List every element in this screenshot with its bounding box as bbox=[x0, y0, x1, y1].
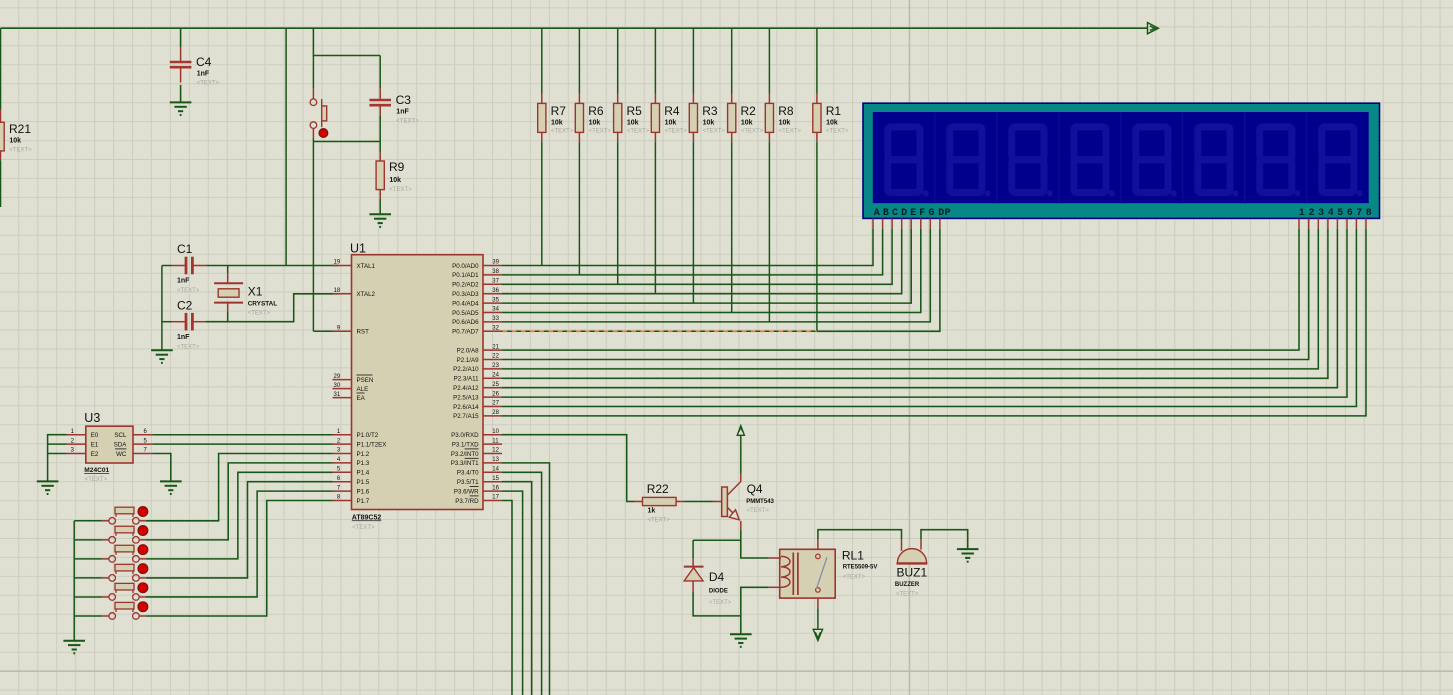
wire P2.1 net to display digit 2 bbox=[502, 228, 1309, 359]
svg-text:R8: R8 bbox=[778, 104, 794, 118]
wire XTAL1 net bbox=[206, 265, 339, 267]
svg-text:<TEXT>: <TEXT> bbox=[551, 129, 574, 135]
svg-text:P1.4: P1.4 bbox=[357, 470, 370, 477]
svg-text:2: 2 bbox=[1309, 208, 1315, 219]
svg-text:P0.5/AD5: P0.5/AD5 bbox=[452, 310, 479, 317]
U1 pin 8 P1.7 bbox=[333, 500, 352, 502]
wire P0.0 net to display segment bbox=[502, 228, 873, 265]
svg-text:P3.5/T1: P3.5/T1 bbox=[457, 479, 479, 486]
push button switch (reset) bbox=[312, 56, 314, 89]
svg-text:PMMT543: PMMT543 bbox=[746, 499, 774, 505]
svg-text:PSEN: PSEN bbox=[357, 377, 374, 384]
wire relay common to buzzer bbox=[817, 539, 819, 549]
resistor R2 bbox=[731, 94, 733, 104]
U1 pin 7 P1.6 bbox=[333, 490, 352, 492]
wire R8 to P0 row bbox=[768, 142, 770, 322]
wire P0.4 net to display segment bbox=[502, 228, 911, 303]
wire button K3 to P1.4 bbox=[146, 472, 333, 559]
wire P3.4 net down bbox=[502, 472, 542, 695]
wire VCC top rail bbox=[1, 27, 1148, 29]
wire buzzer to ground bbox=[921, 530, 968, 549]
svg-text:36: 36 bbox=[492, 288, 499, 294]
U1 pin 36 P0.3/AD3 bbox=[483, 293, 502, 295]
svg-text:34: 34 bbox=[492, 307, 499, 313]
wire Q4 collector to VCC arrow bbox=[740, 436, 742, 474]
svg-text:P3.6/WR: P3.6/WR bbox=[454, 488, 479, 495]
svg-text:<TEXT>: <TEXT> bbox=[741, 129, 764, 135]
svg-text:13: 13 bbox=[492, 457, 499, 463]
U1 pin 25 P2.4/A12 bbox=[483, 387, 502, 389]
svg-text:<TEXT>: <TEXT> bbox=[665, 129, 688, 135]
svg-text:<TEXT>: <TEXT> bbox=[779, 129, 802, 135]
U1 pin 29 PSEN bbox=[333, 379, 352, 381]
U1 pin 26 P2.5/A13 bbox=[483, 396, 502, 398]
push button K3 bbox=[102, 558, 109, 560]
svg-text:10k: 10k bbox=[826, 120, 838, 127]
svg-text:R9: R9 bbox=[389, 160, 405, 174]
U3 pin 3 E2 bbox=[67, 453, 86, 455]
svg-text:27: 27 bbox=[492, 401, 499, 407]
svg-text:P2.2/A10: P2.2/A10 bbox=[453, 366, 479, 373]
U1 pin 13 P3.3/INT1 bbox=[483, 462, 502, 464]
wire P2.6 net to display digit 7 bbox=[502, 228, 1356, 406]
svg-text:<TEXT>: <TEXT> bbox=[9, 147, 32, 153]
svg-text:A: A bbox=[874, 208, 880, 219]
svg-text:10k: 10k bbox=[389, 177, 401, 184]
svg-text:R1: R1 bbox=[826, 104, 842, 118]
wire button K3 left bbox=[74, 558, 102, 560]
svg-text:22: 22 bbox=[492, 354, 499, 360]
wire rail to R2 bbox=[731, 28, 733, 94]
wire P2.0 net to display digit 1 bbox=[502, 228, 1299, 350]
svg-text:C1: C1 bbox=[177, 242, 193, 256]
wire SCL to P1.0 bbox=[152, 434, 332, 436]
resistor R5 bbox=[617, 94, 619, 104]
svg-text:C2: C2 bbox=[177, 299, 193, 313]
svg-text:<TEXT>: <TEXT> bbox=[709, 600, 732, 606]
svg-text:39: 39 bbox=[492, 260, 499, 266]
svg-text:17: 17 bbox=[492, 495, 499, 501]
resistor R6 bbox=[578, 94, 580, 104]
svg-text:P1.5: P1.5 bbox=[357, 479, 370, 486]
svg-text:10: 10 bbox=[492, 429, 499, 435]
wire P2.7 net to display digit 8 bbox=[502, 228, 1366, 416]
ground below U3 WC bbox=[160, 480, 182, 482]
capacitor C4 bbox=[180, 47, 182, 62]
svg-text:P3.7/RD: P3.7/RD bbox=[455, 498, 479, 505]
wire button K1 left bbox=[74, 520, 102, 522]
svg-text:<TEXT>: <TEXT> bbox=[703, 129, 726, 135]
svg-text:15: 15 bbox=[492, 476, 499, 482]
svg-text:R21: R21 bbox=[9, 122, 31, 136]
power arrow VCC at Q4 bbox=[737, 426, 744, 436]
wire R22 to Q4 base bbox=[684, 501, 713, 503]
wire C4 to ground bbox=[180, 85, 182, 102]
wire P0.2 net to display segment bbox=[502, 228, 892, 284]
U1 pin 2 P1.1/T2EX bbox=[333, 443, 352, 445]
svg-text:M24C01: M24C01 bbox=[84, 467, 109, 474]
svg-text:R2: R2 bbox=[741, 104, 757, 118]
svg-text:P3.3/INT1: P3.3/INT1 bbox=[451, 460, 479, 467]
svg-text:<TEXT>: <TEXT> bbox=[843, 574, 866, 580]
U1 pin 22 P2.1/A9 bbox=[483, 359, 502, 361]
svg-text:<TEXT>: <TEXT> bbox=[177, 345, 200, 351]
U1 pin 1 P1.0/T2 bbox=[333, 434, 352, 436]
U1 pin 3 P1.2 bbox=[333, 453, 352, 455]
wire R7 to P0 row bbox=[541, 142, 543, 265]
U1 pin 15 P3.5/T1 bbox=[483, 481, 502, 483]
push button K2 bbox=[102, 539, 109, 541]
U1 pin 37 P0.2/AD2 bbox=[483, 283, 502, 285]
display DPY1 8-digit 7-segment bbox=[863, 103, 1380, 218]
svg-text:23: 23 bbox=[492, 363, 499, 369]
svg-text:7: 7 bbox=[1356, 208, 1362, 219]
wire button K5 to P1.6 bbox=[146, 491, 333, 597]
svg-text:<TEXT>: <TEXT> bbox=[896, 591, 919, 597]
wire WC to ground bbox=[152, 454, 170, 482]
push button K5 bbox=[102, 596, 109, 598]
svg-text:1nF: 1nF bbox=[177, 334, 190, 341]
transistor Q4 bbox=[713, 501, 722, 503]
eeprom U3 M24C01 bbox=[86, 426, 133, 463]
U1 pin 33 P0.6/AD6 bbox=[483, 321, 502, 323]
svg-text:<TEXT>: <TEXT> bbox=[747, 508, 770, 514]
wire rail to R5 bbox=[617, 28, 619, 94]
wire button K5 left bbox=[74, 596, 102, 598]
U1 pin 32 P0.7/AD7 bbox=[483, 330, 502, 332]
svg-text:<TEXT>: <TEXT> bbox=[248, 311, 271, 317]
U1 pin 39 P0.0/AD0 bbox=[483, 265, 502, 267]
svg-text:12: 12 bbox=[492, 448, 499, 454]
svg-text:XTAL1: XTAL1 bbox=[357, 263, 376, 270]
svg-text:<TEXT>: <TEXT> bbox=[396, 119, 419, 125]
svg-text:10k: 10k bbox=[779, 120, 791, 127]
wire P2.2 net to display digit 3 bbox=[502, 228, 1318, 369]
svg-text:D: D bbox=[938, 208, 944, 219]
wire P2.3 net to display digit 4 bbox=[502, 228, 1328, 378]
U1 pin 31 EA bbox=[333, 397, 352, 399]
svg-text:Q4: Q4 bbox=[747, 482, 763, 496]
U1 pin 34 P0.5/AD5 bbox=[483, 312, 502, 314]
wire switch to RST node bbox=[312, 139, 314, 332]
U1 pin 24 P2.3/A11 bbox=[483, 377, 502, 379]
svg-text:<TEXT>: <TEXT> bbox=[85, 477, 108, 483]
svg-text:32: 32 bbox=[492, 326, 499, 332]
svg-text:31: 31 bbox=[334, 392, 341, 398]
wire left rail branch bbox=[0, 28, 2, 109]
U1 pin 12 P3.2/INT0 bbox=[483, 453, 502, 455]
wire button K1 to P1.2 bbox=[146, 454, 333, 521]
svg-text:RL1: RL1 bbox=[842, 548, 864, 562]
wire P3.5 net down bbox=[502, 482, 532, 695]
svg-text:14: 14 bbox=[492, 467, 499, 473]
svg-text:P0.6/AD6: P0.6/AD6 bbox=[452, 319, 479, 326]
wire button K6 to P1.7 bbox=[146, 501, 333, 617]
resistor R1 bbox=[816, 94, 818, 104]
svg-text:B: B bbox=[883, 208, 889, 219]
U1 pin 17 P3.7/RD bbox=[483, 500, 502, 502]
svg-text:37: 37 bbox=[492, 279, 499, 285]
U1 pin 11 P3.1/TXD bbox=[483, 443, 502, 445]
svg-text:10k: 10k bbox=[551, 120, 563, 127]
U1 pin 38 P0.1/AD1 bbox=[483, 274, 502, 276]
svg-text:4: 4 bbox=[1328, 208, 1334, 219]
push button K1 bbox=[102, 520, 109, 522]
wire emitter node to D4 cathode bbox=[693, 539, 741, 541]
svg-text:1: 1 bbox=[1299, 208, 1305, 219]
ground below C4 bbox=[170, 101, 192, 103]
svg-text:<TEXT>: <TEXT> bbox=[389, 187, 412, 193]
svg-text:<TEXT>: <TEXT> bbox=[627, 129, 650, 135]
svg-text:CRYSTAL: CRYSTAL bbox=[248, 300, 278, 307]
capacitor C2 bbox=[172, 321, 186, 323]
display digit pins bbox=[1298, 218, 1300, 228]
svg-text:1nF: 1nF bbox=[177, 278, 190, 285]
svg-text:1nF: 1nF bbox=[197, 71, 210, 78]
U1 pin 9 RST bbox=[333, 330, 352, 332]
wire P3.0 net to R22 bbox=[502, 435, 634, 502]
wire below R21 bbox=[0, 160, 2, 207]
svg-text:3: 3 bbox=[1318, 208, 1324, 219]
svg-text:16: 16 bbox=[492, 485, 499, 491]
U1 pin 27 P2.6/A14 bbox=[483, 406, 502, 408]
svg-text:SDA: SDA bbox=[114, 441, 128, 448]
U1 pin 14 P3.4/T0 bbox=[483, 471, 502, 473]
svg-text:24: 24 bbox=[492, 373, 499, 379]
svg-text:E0: E0 bbox=[91, 432, 99, 439]
svg-text:19: 19 bbox=[334, 260, 341, 266]
svg-text:P3.4/T0: P3.4/T0 bbox=[457, 470, 479, 477]
wire R4 to P0 row bbox=[654, 142, 656, 294]
U3 pin 2 E1 bbox=[67, 443, 86, 445]
svg-text:11: 11 bbox=[492, 438, 499, 444]
microcontroller U1 AT89C52 bbox=[352, 255, 484, 510]
svg-text:P1.7: P1.7 bbox=[357, 498, 370, 505]
resistor R22 bbox=[634, 501, 643, 503]
wire button K4 left bbox=[74, 577, 102, 579]
wire rail to R7 bbox=[541, 28, 543, 94]
wire rail to R1 bbox=[816, 28, 818, 94]
wire P0.1 net to display segment bbox=[502, 228, 883, 275]
svg-text:21: 21 bbox=[492, 344, 499, 350]
display segment pins bbox=[872, 218, 874, 228]
U1 pin 10 P3.0/RXD bbox=[483, 434, 502, 436]
svg-text:RTE5509-5V: RTE5509-5V bbox=[843, 564, 878, 570]
wire rail to XTAL1 bbox=[285, 28, 287, 265]
diode D4 bbox=[692, 540, 694, 558]
wire rail to C4 bbox=[180, 28, 182, 47]
buzzer BUZ1 bbox=[897, 549, 926, 564]
svg-text:P2.6/A14: P2.6/A14 bbox=[453, 404, 479, 411]
U3 pin 5 SDA bbox=[133, 443, 152, 445]
svg-text:C4: C4 bbox=[196, 55, 212, 69]
resistor R21 bbox=[0, 109, 2, 122]
svg-text:38: 38 bbox=[492, 269, 499, 275]
U1 pin 28 P2.7/A15 bbox=[483, 415, 502, 417]
svg-text:E: E bbox=[910, 208, 916, 219]
svg-text:10k: 10k bbox=[627, 120, 639, 127]
svg-text:P2.5/A13: P2.5/A13 bbox=[453, 394, 479, 401]
wire rail to reset node bbox=[313, 28, 380, 55]
svg-text:X1: X1 bbox=[248, 284, 263, 298]
svg-text:10k: 10k bbox=[665, 120, 677, 127]
svg-text:C3: C3 bbox=[396, 93, 412, 107]
ground below R9 bbox=[369, 213, 391, 215]
U1 pin 30 ALE bbox=[333, 388, 352, 390]
wire D4 anode to ground node bbox=[693, 592, 741, 616]
U1 pin 4 P1.3 bbox=[333, 462, 352, 464]
wire P0.7 net dashed bbox=[502, 330, 817, 332]
resistor R9 bbox=[379, 142, 381, 153]
svg-text:<TEXT>: <TEXT> bbox=[589, 129, 612, 135]
wire P3.6 net down bbox=[502, 491, 523, 695]
wire P3.7 net down bbox=[502, 501, 512, 695]
wire rail to R3 bbox=[692, 28, 694, 94]
svg-text:U1: U1 bbox=[350, 242, 366, 256]
wire rail to R4 bbox=[654, 28, 656, 94]
svg-text:P2.1/A9: P2.1/A9 bbox=[457, 357, 480, 364]
svg-text:D4: D4 bbox=[709, 570, 725, 584]
svg-text:R5: R5 bbox=[627, 104, 643, 118]
svg-text:5: 5 bbox=[1337, 208, 1343, 219]
svg-text:P0.7/AD7: P0.7/AD7 bbox=[452, 329, 479, 336]
svg-text:6: 6 bbox=[1347, 208, 1353, 219]
svg-text:<TEXT>: <TEXT> bbox=[177, 288, 200, 294]
svg-text:35: 35 bbox=[492, 297, 499, 303]
svg-text:WC: WC bbox=[116, 451, 127, 458]
svg-text:RST: RST bbox=[357, 329, 370, 336]
svg-text:P1.0/T2: P1.0/T2 bbox=[357, 432, 379, 439]
svg-text:U3: U3 bbox=[84, 411, 100, 425]
wire R5 to P0 row bbox=[617, 142, 619, 284]
svg-text:P0.0/AD0: P0.0/AD0 bbox=[452, 263, 479, 270]
svg-text:ALE: ALE bbox=[357, 386, 369, 393]
ground below U3 left bbox=[37, 480, 59, 482]
svg-text:R3: R3 bbox=[702, 104, 718, 118]
wire relay NO pin down bbox=[817, 598, 819, 608]
wire RST node to U1 bbox=[313, 330, 338, 332]
svg-text:BUZZER: BUZZER bbox=[895, 582, 920, 588]
wire P0.5 net to display segment bbox=[502, 228, 921, 312]
svg-text:P1.6: P1.6 bbox=[357, 488, 370, 495]
wire P0.6 net to display segment bbox=[502, 228, 930, 322]
wire R3 to P0 row bbox=[692, 142, 694, 303]
wire P3.3 net down bbox=[502, 463, 550, 695]
svg-text:30: 30 bbox=[334, 383, 341, 389]
svg-text:F: F bbox=[919, 208, 925, 219]
svg-text:<TEXT>: <TEXT> bbox=[648, 518, 671, 524]
svg-text:1k: 1k bbox=[648, 508, 656, 515]
svg-text:C: C bbox=[892, 208, 898, 219]
push button K6 bbox=[102, 615, 109, 617]
push button K4 bbox=[102, 577, 109, 579]
resistor R3 bbox=[692, 94, 694, 104]
U1 pin 18 XTAL2 bbox=[333, 293, 352, 295]
svg-text:R7: R7 bbox=[551, 104, 567, 118]
wire P2.5 net to display digit 6 bbox=[502, 228, 1347, 397]
svg-text:10k: 10k bbox=[9, 138, 21, 145]
capacitor C3 bbox=[379, 56, 381, 89]
svg-text:<TEXT>: <TEXT> bbox=[197, 81, 220, 87]
wire E0/E1/E2 to ground bbox=[48, 435, 67, 482]
U3 pin 7 WC bbox=[133, 453, 152, 455]
svg-text:P0.4/AD4: P0.4/AD4 bbox=[452, 300, 479, 307]
svg-text:P3.2/INT0: P3.2/INT0 bbox=[451, 451, 479, 458]
svg-text:P2.0/A8: P2.0/A8 bbox=[457, 347, 480, 354]
svg-text:EA: EA bbox=[357, 395, 366, 402]
svg-text:1nF: 1nF bbox=[396, 109, 409, 116]
svg-text:P2.3/A11: P2.3/A11 bbox=[454, 376, 480, 383]
svg-text:D: D bbox=[901, 208, 907, 219]
U1 pin 5 P1.4 bbox=[333, 471, 352, 473]
svg-text:8: 8 bbox=[1366, 208, 1372, 219]
wire relay coil bottom to ground bbox=[741, 587, 769, 634]
svg-text:33: 33 bbox=[492, 316, 499, 322]
resistor R4 bbox=[654, 94, 656, 104]
svg-text:28: 28 bbox=[492, 410, 499, 416]
svg-text:R6: R6 bbox=[588, 104, 604, 118]
svg-text:SCL: SCL bbox=[114, 432, 127, 439]
svg-text:G: G bbox=[928, 208, 934, 219]
wire R9 to ground bbox=[379, 199, 381, 214]
U1 pin 19 XTAL1 bbox=[333, 265, 352, 267]
svg-text:10k: 10k bbox=[741, 120, 753, 127]
svg-text:R4: R4 bbox=[664, 104, 680, 118]
wire rail to R8 bbox=[768, 28, 770, 94]
svg-text:E1: E1 bbox=[91, 441, 99, 448]
svg-text:18: 18 bbox=[334, 288, 341, 294]
svg-text:E2: E2 bbox=[91, 451, 99, 458]
power arrow terminal bbox=[1148, 23, 1159, 34]
U1 pin 16 P3.6/WR bbox=[483, 490, 502, 492]
svg-text:P2.7/A15: P2.7/A15 bbox=[453, 413, 479, 420]
wire R6 to P0 row bbox=[578, 142, 580, 275]
resistor R7 bbox=[541, 94, 543, 104]
relay RL1 bbox=[780, 549, 836, 598]
wire P0.3 net to display segment bbox=[502, 228, 902, 294]
svg-text:R22: R22 bbox=[647, 482, 669, 496]
svg-text:P3.0/RXD: P3.0/RXD bbox=[451, 432, 479, 439]
svg-text:<TEXT>: <TEXT> bbox=[352, 525, 375, 531]
wire Q4 emitter to relay coil bbox=[741, 530, 769, 558]
wire button K2 to P1.3 bbox=[146, 463, 333, 540]
wire button ground bus bbox=[73, 521, 75, 641]
svg-text:AT89C52: AT89C52 bbox=[352, 514, 382, 521]
wire C1-C2 left to ground bbox=[161, 266, 163, 351]
ground below buttons bbox=[63, 640, 85, 642]
svg-text:25: 25 bbox=[492, 382, 499, 388]
U1 pin 6 P1.5 bbox=[333, 481, 352, 483]
svg-text:P1.3: P1.3 bbox=[357, 460, 370, 467]
U3 pin 6 SCL bbox=[133, 434, 152, 436]
resistor R8 bbox=[768, 94, 770, 104]
U1 pin 35 P0.4/AD4 bbox=[483, 302, 502, 304]
svg-text:10k: 10k bbox=[703, 120, 715, 127]
svg-text:P0.1/AD1: P0.1/AD1 bbox=[452, 272, 479, 279]
ground arrow below relay bbox=[813, 629, 822, 640]
wire P2.4 net to display digit 5 bbox=[502, 228, 1337, 388]
wire SDA to P1.1 bbox=[152, 443, 332, 445]
wire rail to R6 bbox=[578, 28, 580, 94]
ground below C2 bbox=[151, 349, 173, 351]
svg-text:P1.2: P1.2 bbox=[357, 451, 370, 458]
ground right of buzzer bbox=[957, 548, 979, 550]
wire button K4 to P1.5 bbox=[146, 482, 333, 578]
wire button K2 left bbox=[74, 539, 102, 541]
svg-text:P3.1/TXD: P3.1/TXD bbox=[452, 441, 479, 448]
wire R1 to P0 row bbox=[816, 142, 818, 331]
svg-text:P0.2/AD2: P0.2/AD2 bbox=[452, 282, 479, 289]
